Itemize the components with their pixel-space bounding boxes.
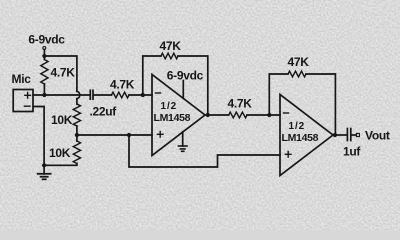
svg-text:1/2: 1/2 xyxy=(161,101,178,112)
svg-text:Vout: Vout xyxy=(365,129,390,143)
svg-text:10K: 10K xyxy=(51,113,73,127)
svg-text:LM1458: LM1458 xyxy=(154,112,191,124)
svg-text:10K: 10K xyxy=(49,146,71,160)
svg-text:4.7K: 4.7K xyxy=(51,66,76,80)
svg-text:LM1458: LM1458 xyxy=(282,132,319,144)
svg-text:4.7K: 4.7K xyxy=(228,97,253,111)
svg-text:.22uf: .22uf xyxy=(90,105,118,119)
svg-text:1/2: 1/2 xyxy=(289,121,306,132)
svg-text:47K: 47K xyxy=(160,39,182,53)
svg-text:6-9vdc: 6-9vdc xyxy=(167,69,204,83)
svg-text:6-9vdc: 6-9vdc xyxy=(28,33,65,47)
svg-text:Mic: Mic xyxy=(12,72,32,86)
svg-text:4.7K: 4.7K xyxy=(110,78,135,92)
svg-text:1uf: 1uf xyxy=(343,145,361,159)
svg-text:47K: 47K xyxy=(288,55,310,69)
